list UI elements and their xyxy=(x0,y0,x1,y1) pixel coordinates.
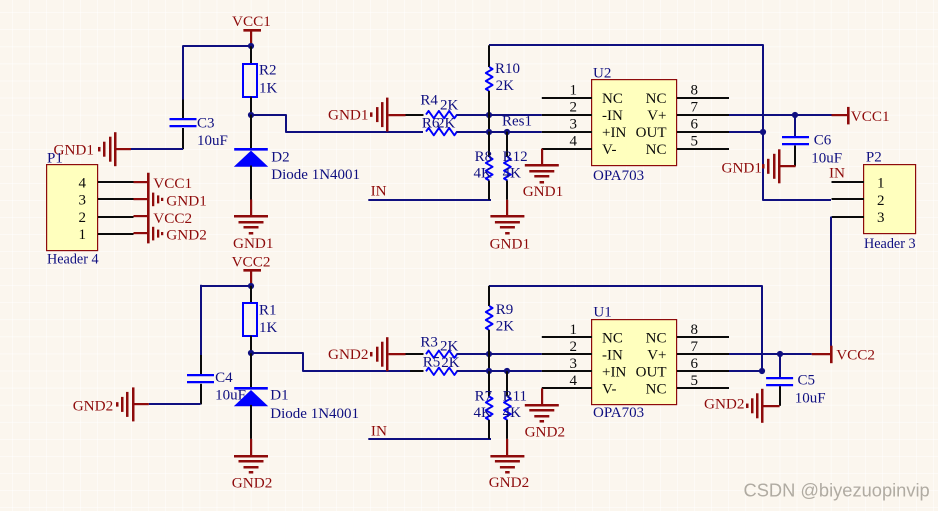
wire R3 to -IN pin xyxy=(457,353,542,355)
svg-text:2K: 2K xyxy=(440,98,459,114)
svg-text:C6: C6 xyxy=(814,133,832,149)
svg-text:3: 3 xyxy=(570,356,578,372)
junction -IN node (bottom) xyxy=(486,351,492,357)
wire V+ to VCC2 xyxy=(729,353,812,355)
power VCC1 (right) xyxy=(832,114,848,116)
ground GND2 (P1 pin 1) xyxy=(152,227,154,241)
U2 pin 6 stub xyxy=(677,131,729,133)
U1 pin 8 stub xyxy=(677,336,729,338)
svg-text:2K: 2K xyxy=(440,339,459,355)
svg-text:2K: 2K xyxy=(437,115,456,131)
svg-text:-IN: -IN xyxy=(602,108,623,124)
junction -IN node xyxy=(486,112,492,118)
U1 pin 6 stub xyxy=(677,370,729,372)
ground GND1 (C3) xyxy=(116,148,131,150)
svg-text:OPA703: OPA703 xyxy=(593,405,644,421)
ground GND1 (P1 pin 3) xyxy=(152,193,154,207)
svg-text:IN: IN xyxy=(371,183,387,200)
U1 pin 1 stub xyxy=(542,336,592,338)
diode D2 xyxy=(250,115,252,148)
svg-text:6: 6 xyxy=(691,356,699,372)
wire feedback loop bottom (R9 to OUT) xyxy=(489,286,762,371)
wire R5 to +IN pin xyxy=(457,370,542,372)
ground GND2 (C4) xyxy=(134,403,149,405)
wire between -IN and +IN rows xyxy=(488,115,490,132)
svg-text:GND2: GND2 xyxy=(704,396,745,413)
svg-text:GND1: GND1 xyxy=(722,160,763,177)
U2 pin 5 stub xyxy=(677,148,729,150)
resistor R1 xyxy=(250,286,252,304)
svg-text:Res1: Res1 xyxy=(502,114,532,130)
svg-text:VCC2: VCC2 xyxy=(153,210,192,227)
svg-text:4K: 4K xyxy=(474,405,493,421)
svg-text:Header 4: Header 4 xyxy=(47,252,99,268)
svg-text:3: 3 xyxy=(570,116,578,132)
resistor R10 xyxy=(488,45,490,67)
svg-text:4K: 4K xyxy=(474,165,493,181)
ground GND2 (C5) xyxy=(763,405,780,407)
svg-text:R11: R11 xyxy=(503,389,527,405)
ground GND2 (under D1) xyxy=(250,439,252,456)
ground GND2 (under R11) xyxy=(506,439,508,456)
svg-text:CSDN @biyezuopinvip: CSDN @biyezuopinvip xyxy=(744,480,930,501)
svg-text:10uF: 10uF xyxy=(197,133,228,149)
svg-text:4K: 4K xyxy=(503,405,521,421)
U2 pin 8 stub xyxy=(677,97,729,99)
junction C5 tap xyxy=(777,351,783,357)
junction +IN node at R8 xyxy=(486,129,492,135)
svg-text:C5: C5 xyxy=(798,373,816,389)
wire VCC1 node horizontal xyxy=(183,45,251,47)
svg-text:U1: U1 xyxy=(593,305,611,321)
power bar P1 (VCC1/GND1/VCC2/GND2) xyxy=(147,173,150,244)
svg-text:2: 2 xyxy=(570,99,578,115)
wire IN (top) xyxy=(368,199,491,201)
svg-text:IN: IN xyxy=(829,165,845,182)
capacitor C4 xyxy=(200,355,202,376)
svg-text:D2: D2 xyxy=(271,150,289,166)
svg-text:NC: NC xyxy=(646,91,667,107)
junction VCC1/R2/C3 xyxy=(248,43,254,49)
U1 pin 5 stub xyxy=(677,387,729,389)
svg-text:2K: 2K xyxy=(496,319,515,335)
wire C4 to GND2 xyxy=(149,403,201,405)
resistor R6 xyxy=(426,128,457,135)
svg-text:2: 2 xyxy=(79,210,87,226)
wire C3 to GND1 xyxy=(131,148,183,150)
svg-text:4K: 4K xyxy=(503,165,521,181)
svg-text:OPA703: OPA703 xyxy=(593,168,644,184)
wire OUT to loop (bottom) xyxy=(729,370,762,372)
ground GND2 (U1 pin 4) xyxy=(541,388,543,405)
wire R6 to +IN pin xyxy=(457,131,542,133)
U2 pin 7 stub xyxy=(677,114,729,116)
svg-text:C4: C4 xyxy=(215,370,233,386)
svg-text:GND2: GND2 xyxy=(166,227,207,244)
svg-text:Diode 1N4001: Diode 1N4001 xyxy=(271,167,360,183)
svg-text:R2: R2 xyxy=(259,63,277,79)
wire GND1 to R4 xyxy=(406,114,424,116)
svg-text:VCC2: VCC2 xyxy=(836,347,875,364)
junction R1/D1 node xyxy=(248,350,254,356)
ground GND1 (under D2) xyxy=(250,200,252,217)
svg-text:10uF: 10uF xyxy=(795,391,826,407)
junction +IN node at R7 xyxy=(486,368,492,374)
svg-text:GND1: GND1 xyxy=(233,235,274,252)
svg-text:R10: R10 xyxy=(495,61,520,77)
capacitor C5 xyxy=(779,354,781,378)
svg-text:1K: 1K xyxy=(259,81,278,97)
svg-text:OUT: OUT xyxy=(636,125,667,141)
svg-text:R5: R5 xyxy=(423,355,441,371)
svg-text:2: 2 xyxy=(570,339,578,355)
svg-text:NC: NC xyxy=(602,91,623,107)
resistor R3 xyxy=(426,351,457,358)
resistor R9 xyxy=(488,286,490,306)
wire V+ to VCC1 xyxy=(729,114,832,116)
wire R2 node jog to +IN row xyxy=(251,115,423,132)
svg-text:V-: V- xyxy=(602,382,616,398)
svg-text:V+: V+ xyxy=(647,108,666,124)
wire VCC2 node horizontal xyxy=(201,285,252,287)
svg-text:1: 1 xyxy=(79,227,87,243)
capacitor C6 xyxy=(794,115,796,138)
svg-text:3: 3 xyxy=(79,193,87,209)
junction R2/D2 node xyxy=(248,112,254,118)
svg-text:4: 4 xyxy=(570,134,578,150)
svg-text:2K: 2K xyxy=(441,355,460,371)
svg-text:+IN: +IN xyxy=(602,125,626,141)
svg-text:NC: NC xyxy=(646,330,667,346)
wire feedback loop top (R10 to OUT to P2 pin2) xyxy=(489,45,831,200)
svg-text:OUT: OUT xyxy=(636,365,667,381)
P2 pin 1 stub xyxy=(832,181,865,183)
svg-text:+IN: +IN xyxy=(602,365,626,381)
svg-text:GND1: GND1 xyxy=(523,183,564,200)
svg-text:R4: R4 xyxy=(420,93,438,109)
svg-text:Diode 1N4001: Diode 1N4001 xyxy=(270,406,359,422)
svg-text:2K: 2K xyxy=(496,78,514,94)
U2 pin 2 stub xyxy=(542,114,592,116)
U1 pin 3 stub xyxy=(542,370,592,372)
resistor R4 xyxy=(426,111,457,118)
wire between -IN and +IN rows (bottom) xyxy=(488,354,490,371)
svg-text:VCC2: VCC2 xyxy=(232,254,271,271)
svg-text:VCC1: VCC1 xyxy=(851,108,890,125)
svg-text:P2: P2 xyxy=(866,150,882,166)
junction C6 tap xyxy=(792,112,798,118)
P2 pin 2 stub xyxy=(832,198,865,200)
diode D1 xyxy=(250,353,252,387)
svg-text:R9: R9 xyxy=(496,302,514,318)
ground GND1 (C6) xyxy=(779,165,795,167)
wire IN (bottom) xyxy=(368,438,491,440)
svg-text:GND2: GND2 xyxy=(328,346,369,363)
svg-text:C3: C3 xyxy=(197,116,215,132)
svg-text:4: 4 xyxy=(570,373,578,389)
svg-text:GND2: GND2 xyxy=(232,475,272,492)
svg-text:6: 6 xyxy=(691,116,699,132)
resistor R8 xyxy=(488,132,490,157)
svg-text:D1: D1 xyxy=(270,388,288,404)
wire down to C3 xyxy=(182,45,184,99)
U1 pin 2 stub xyxy=(542,353,592,355)
junction +IN node at R11 xyxy=(504,368,510,374)
svg-text:VCC1: VCC1 xyxy=(232,13,271,30)
junction OUT/loop (bottom) xyxy=(759,368,765,374)
resistor R11 xyxy=(506,371,508,396)
power VCC2 (right) xyxy=(812,353,831,355)
svg-text:7: 7 xyxy=(691,339,699,355)
svg-text:5: 5 xyxy=(691,373,699,389)
ground GND1 (U2 pin 4) xyxy=(541,149,543,166)
svg-text:R7: R7 xyxy=(475,389,493,405)
wire P1 pin stubs xyxy=(98,181,134,183)
svg-text:R12: R12 xyxy=(503,149,528,165)
svg-text:R3: R3 xyxy=(420,335,438,351)
svg-text:3: 3 xyxy=(877,210,885,226)
svg-text:Header 3: Header 3 xyxy=(864,236,916,252)
svg-text:1K: 1K xyxy=(259,320,278,336)
svg-text:GND1: GND1 xyxy=(328,107,369,124)
svg-text:GND1: GND1 xyxy=(490,236,530,253)
svg-text:GND2: GND2 xyxy=(525,424,566,441)
svg-text:2: 2 xyxy=(877,193,885,209)
wire R1 node jog to +IN row xyxy=(251,353,410,371)
svg-text:1: 1 xyxy=(570,322,578,338)
wire down to C4 xyxy=(200,285,202,355)
svg-text:IN: IN xyxy=(371,422,387,439)
resistor R7 xyxy=(488,371,490,396)
junction OUT/loop xyxy=(760,129,766,135)
svg-text:GND1: GND1 xyxy=(166,193,207,210)
svg-text:NC: NC xyxy=(602,330,623,346)
svg-text:7: 7 xyxy=(691,99,699,115)
U2 pin 1 stub xyxy=(542,97,592,99)
wire OUT to loop xyxy=(729,131,763,133)
svg-text:1: 1 xyxy=(877,176,885,192)
wire P2 pin 3 down to VCC2 xyxy=(830,217,832,347)
svg-text:V-: V- xyxy=(602,142,616,158)
U1 pin 7 stub xyxy=(677,353,729,355)
junction +IN node at R12 xyxy=(504,129,510,135)
svg-text:R1: R1 xyxy=(259,303,277,319)
svg-text:4: 4 xyxy=(79,176,87,192)
resistor R2 xyxy=(250,46,252,64)
U2 pin 4 stub xyxy=(542,148,592,150)
svg-text:8: 8 xyxy=(691,322,699,338)
svg-text:R8: R8 xyxy=(475,149,493,165)
junction VCC2/R1/C4 xyxy=(248,283,254,289)
svg-text:8: 8 xyxy=(691,82,699,98)
svg-text:5: 5 xyxy=(691,134,699,150)
P2 pin 3 stub xyxy=(832,216,865,218)
U1 pin 4 stub xyxy=(542,387,592,389)
svg-text:GND2: GND2 xyxy=(489,474,530,491)
ground GND1 (under R12) xyxy=(506,200,508,217)
capacitor C3 xyxy=(182,100,184,120)
svg-text:NC: NC xyxy=(646,382,667,398)
svg-text:V+: V+ xyxy=(647,347,666,363)
wire R4 to -IN pin xyxy=(457,114,542,116)
resistor R5 xyxy=(426,368,457,375)
U2 pin 3 stub xyxy=(542,131,592,133)
svg-text:GND2: GND2 xyxy=(73,398,114,415)
svg-text:NC: NC xyxy=(646,142,667,158)
svg-text:-IN: -IN xyxy=(602,347,623,363)
resistor R12 xyxy=(506,132,508,157)
wire GND2 to R3 xyxy=(406,353,424,355)
svg-text:1: 1 xyxy=(570,82,578,98)
svg-text:VCC1: VCC1 xyxy=(153,175,192,192)
